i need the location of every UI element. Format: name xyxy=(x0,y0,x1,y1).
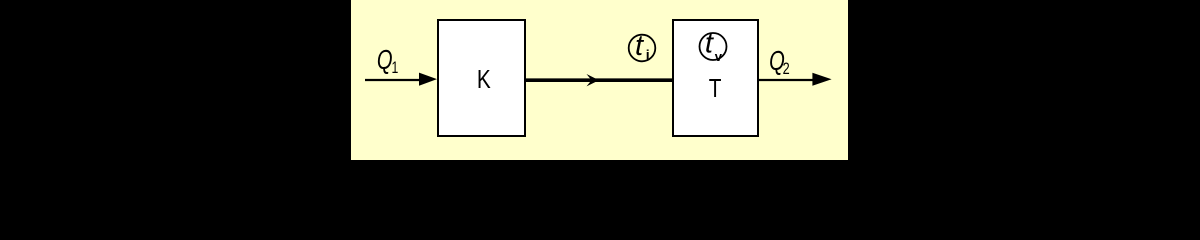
wire W2: thick signal line from block K to block T xyxy=(526,74,672,86)
block K xyxy=(438,20,525,136)
svg-text:Q: Q xyxy=(377,45,393,76)
block T xyxy=(673,20,758,136)
svg-text:1: 1 xyxy=(392,59,399,77)
wire W1: input line into block K xyxy=(365,73,437,86)
svg-text:2: 2 xyxy=(783,59,790,78)
label Q2 (output signal) xyxy=(769,46,790,79)
svg-text:T: T xyxy=(709,74,722,103)
label K (block K designator) xyxy=(477,65,491,94)
label Q1 (input signal) xyxy=(377,45,398,78)
svg-text:K: K xyxy=(477,65,491,94)
node t_v: circled temperature label inside block T xyxy=(700,28,727,65)
wire W3: output line from block T xyxy=(759,73,832,86)
svg-text:v: v xyxy=(715,49,723,64)
svg-text:i: i xyxy=(646,47,650,63)
node t_i: circled temperature label on wire W2 xyxy=(629,30,656,63)
label T (block T designator) xyxy=(709,74,722,103)
